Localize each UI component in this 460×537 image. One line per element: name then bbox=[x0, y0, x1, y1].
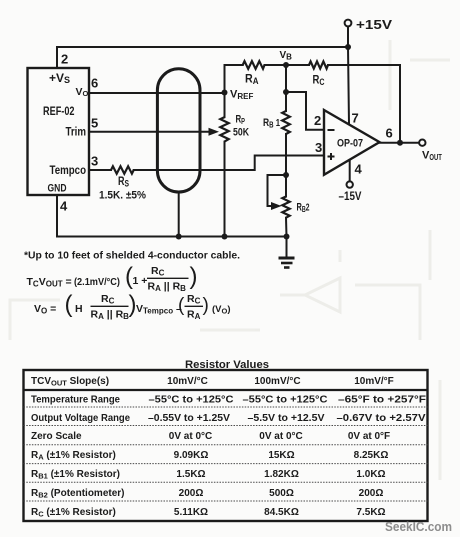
svg-text:7.5KΩ: 7.5KΩ bbox=[356, 507, 385, 518]
svg-text:6: 6 bbox=[386, 126, 393, 141]
table text bbox=[31, 376, 394, 388]
svg-text:0V at 0°C: 0V at 0°C bbox=[259, 431, 302, 442]
svg-text:9.09KΩ: 9.09KΩ bbox=[174, 450, 209, 461]
wire VB to RC to feedback corner bbox=[286, 65, 400, 143]
wire VB node down through RB1 RB2 to ground rail bbox=[285, 65, 288, 237]
svg-text:RA: RA bbox=[187, 309, 201, 322]
potentiometer RP wiper arrow bbox=[209, 128, 220, 136]
svg-text:TCVOUT Slope(s): TCVOUT Slope(s) bbox=[31, 376, 109, 388]
svg-text:200Ω: 200Ω bbox=[359, 488, 384, 499]
svg-text:RC: RC bbox=[187, 293, 201, 306]
svg-text:1.5K. ±5%: 1.5K. ±5% bbox=[99, 190, 146, 202]
svg-text:15KΩ: 15KΩ bbox=[268, 450, 294, 461]
svg-text:Tempco: Tempco bbox=[50, 163, 87, 177]
svg-text:(: ( bbox=[178, 295, 185, 316]
svg-text:4: 4 bbox=[355, 162, 363, 177]
svg-text:RP: RP bbox=[236, 114, 246, 127]
svg-text:RC (±1% Resistor): RC (±1% Resistor) bbox=[31, 507, 116, 519]
svg-text:): ) bbox=[203, 295, 209, 316]
junction dot VREF node bbox=[222, 90, 228, 96]
wire Tempco through Rs to op-amp pin3 bbox=[89, 156, 324, 171]
svg-text:RB2: RB2 bbox=[297, 202, 310, 215]
svg-text:TCVOUT =: TCVOUT = bbox=[27, 276, 72, 289]
wire top +Vs rail bbox=[57, 47, 348, 68]
svg-text:1.0KΩ: 1.0KΩ bbox=[356, 469, 385, 480]
junction dot RB2 wiper tap bbox=[283, 172, 289, 178]
wire Trim to RP wiper bbox=[89, 131, 210, 133]
wire op-amp output bbox=[380, 142, 420, 144]
svg-text:): ) bbox=[190, 263, 198, 290]
svg-text:–0.67V to +2.57V: –0.67V to +2.57V bbox=[337, 413, 426, 424]
svg-text:RC: RC bbox=[151, 265, 165, 278]
svg-text:+15V: +15V bbox=[356, 17, 392, 32]
potentiometer RB2 wiper arrow bbox=[271, 202, 282, 210]
wire RB2 wiper loop bbox=[268, 175, 287, 206]
junction dot RP at rail bbox=[222, 234, 228, 240]
svg-text:0V at 0°C: 0V at 0°C bbox=[169, 431, 212, 442]
svg-text:VOUT: VOUT bbox=[422, 150, 442, 162]
svg-text:8.25KΩ: 8.25KΩ bbox=[354, 450, 389, 461]
terminal VOUT bbox=[419, 140, 425, 146]
svg-text:RC: RC bbox=[313, 73, 325, 88]
svg-text:Zero Scale: Zero Scale bbox=[31, 431, 82, 442]
svg-text:RA (±1% Resistor): RA (±1% Resistor) bbox=[31, 450, 116, 462]
svg-text:7: 7 bbox=[352, 111, 359, 126]
svg-text:H: H bbox=[75, 303, 83, 315]
svg-text:5.11KΩ: 5.11KΩ bbox=[174, 507, 208, 518]
svg-text:Output Voltage Range: Output Voltage Range bbox=[31, 413, 130, 424]
svg-text:2: 2 bbox=[314, 113, 321, 128]
svg-text:–0.55V to +1.25V: –0.55V to +1.25V bbox=[148, 413, 230, 424]
terminal +15V bbox=[345, 20, 352, 27]
svg-text:(: ( bbox=[65, 291, 73, 318]
svg-text:VO =: VO = bbox=[34, 303, 56, 316]
junction dot output node bbox=[397, 140, 403, 146]
svg-text:10mV/°F: 10mV/°F bbox=[354, 376, 394, 387]
svg-text:RA || RB: RA || RB bbox=[148, 281, 187, 294]
wire Vo pin6 to VREF node bbox=[89, 92, 225, 94]
table grid bbox=[24, 370, 428, 521]
svg-text:2: 2 bbox=[61, 52, 68, 67]
svg-text:500Ω: 500Ω bbox=[269, 488, 294, 499]
wire inverting input branch bbox=[286, 92, 324, 130]
svg-text:REF-02: REF-02 bbox=[43, 104, 75, 118]
svg-text:–5.5V to +12.5V: –5.5V to +12.5V bbox=[248, 413, 325, 424]
svg-text:RB 1: RB 1 bbox=[263, 117, 280, 130]
svg-text:VTempco –: VTempco – bbox=[136, 303, 182, 316]
cable shield oval bbox=[157, 69, 200, 192]
svg-text:(VO): (VO) bbox=[212, 304, 231, 316]
svg-text:200Ω: 200Ω bbox=[179, 488, 204, 499]
junction dot VB node bbox=[283, 62, 289, 68]
svg-text:1.82KΩ: 1.82KΩ bbox=[264, 469, 299, 480]
svg-text:RB1 (±1% Resistor): RB1 (±1% Resistor) bbox=[31, 469, 120, 481]
svg-text:10mV/°C: 10mV/°C bbox=[167, 376, 208, 387]
wire cable shield stem bbox=[178, 192, 180, 237]
svg-text:+VS: +VS bbox=[49, 71, 70, 85]
op-amp minus sign bbox=[328, 129, 335, 131]
svg-text:Trim: Trim bbox=[66, 125, 87, 139]
svg-text:*Up to 10 feet of shelded 4-co: *Up to 10 feet of shelded 4-conductor ca… bbox=[24, 250, 240, 262]
IC REF-02 box bbox=[28, 68, 90, 195]
svg-text:RA || RB: RA || RB bbox=[91, 309, 130, 322]
svg-text:VB: VB bbox=[280, 50, 293, 62]
svg-text:RB2 (Potentiometer): RB2 (Potentiometer) bbox=[31, 488, 125, 500]
wire VREF vertical through RP pot bbox=[224, 65, 226, 237]
wire +15V stem and pin7 feed bbox=[348, 27, 349, 124]
resistor RS bbox=[111, 166, 134, 173]
svg-text:3: 3 bbox=[91, 154, 98, 169]
svg-text:–55°C to +125°C: –55°C to +125°C bbox=[149, 394, 234, 405]
svg-text:100mV/°C: 100mV/°C bbox=[254, 376, 300, 387]
svg-text:–65°F to +257°F: –65°F to +257°F bbox=[338, 394, 426, 405]
terminal -15V bbox=[347, 181, 353, 187]
svg-text:OP-07: OP-07 bbox=[337, 138, 363, 150]
svg-text:SeekIC.com: SeekIC.com bbox=[385, 519, 452, 534]
svg-text:6: 6 bbox=[91, 76, 98, 91]
junction dot inverting branch bbox=[283, 89, 289, 95]
svg-text:4: 4 bbox=[60, 199, 68, 214]
wire ground stem bbox=[286, 237, 288, 257]
junction dot cable shield at rail bbox=[176, 234, 182, 240]
op-amp U1 OP-07 triangle bbox=[324, 110, 380, 175]
svg-text:1 +: 1 + bbox=[133, 275, 148, 287]
svg-text:84.5KΩ: 84.5KΩ bbox=[264, 507, 299, 518]
potentiometer RP element bbox=[220, 117, 228, 142]
svg-text:VREF: VREF bbox=[230, 89, 253, 102]
svg-text:RS: RS bbox=[118, 174, 129, 189]
svg-text:3: 3 bbox=[315, 140, 322, 155]
svg-text:(2.1mV/°C): (2.1mV/°C) bbox=[74, 276, 120, 288]
svg-text:RA: RA bbox=[245, 72, 259, 87]
svg-text:0V at 0°F: 0V at 0°F bbox=[348, 431, 390, 442]
svg-text:VO: VO bbox=[76, 86, 89, 98]
resistor RA bbox=[243, 61, 265, 69]
potentiometer RB2 element bbox=[282, 197, 289, 218]
wire op-amp pin4 stem bbox=[349, 160, 351, 181]
wire GND pin4 to ground rail bbox=[57, 195, 287, 237]
junction dot ground node bbox=[284, 234, 290, 240]
formula TcVout bbox=[27, 263, 198, 293]
wire VREF top corner to RA bbox=[225, 64, 287, 66]
junction dot top rail bbox=[345, 44, 351, 50]
op-amp plus sign bbox=[328, 153, 335, 160]
svg-text:Temperature Range: Temperature Range bbox=[31, 394, 120, 405]
svg-text:5: 5 bbox=[91, 116, 98, 131]
svg-text:–55°C to +125°C: –55°C to +125°C bbox=[243, 394, 328, 405]
formula Vo bbox=[34, 291, 231, 321]
ground symbol bbox=[279, 258, 295, 268]
svg-text:GND: GND bbox=[48, 183, 67, 195]
svg-text:RC: RC bbox=[101, 293, 115, 306]
svg-text:1.5KΩ: 1.5KΩ bbox=[176, 469, 205, 480]
resistor RB1 bbox=[282, 111, 290, 134]
resistor RC bbox=[309, 61, 328, 68]
svg-text:–15V: –15V bbox=[339, 191, 362, 203]
svg-text:50K: 50K bbox=[233, 127, 249, 139]
